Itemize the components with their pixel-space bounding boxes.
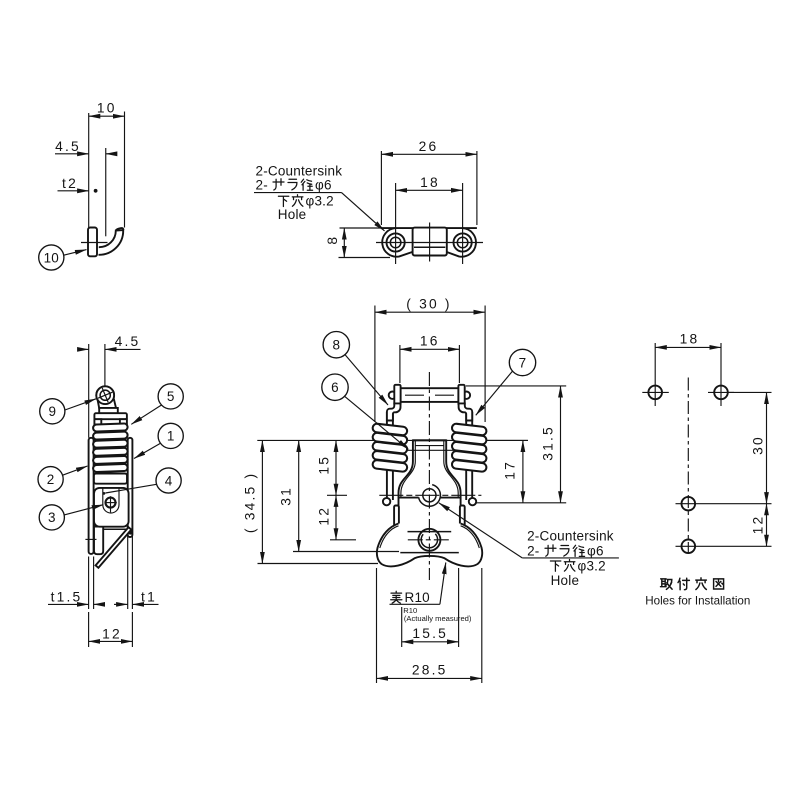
hole top-left [648, 386, 662, 400]
svg-text:φ3.2: φ3.2 [306, 194, 334, 209]
balloon 3 [39, 505, 64, 530]
spring top cap (part 5) [99, 408, 118, 413]
svg-text:9: 9 [48, 404, 56, 419]
extension line right [124, 112, 126, 228]
plate centre boss [413, 228, 447, 256]
spring seat block [94, 474, 127, 484]
spring wire end circles [389, 392, 396, 399]
dimension 26 [380, 151, 382, 225]
svg-text:2-Countersink: 2-Countersink [256, 164, 343, 179]
svg-text:2-: 2- [256, 178, 268, 193]
vertical center line mid [429, 223, 431, 262]
svg-text:18: 18 [680, 332, 700, 347]
balloon 1 [158, 423, 183, 448]
svg-text:16: 16 [420, 334, 440, 349]
dimension 12 (side view) [88, 612, 90, 647]
svg-text:φ3.2: φ3.2 [578, 559, 606, 574]
dimension 12 [766, 504, 768, 547]
caption: Holes for Installation (Japanese) [661, 579, 673, 590]
dimension 28.5 [376, 568, 378, 683]
body ledge line [399, 497, 461, 499]
svg-text:30: 30 [751, 435, 766, 455]
svg-text:6: 6 [331, 380, 339, 395]
svg-text:28.5: 28.5 [412, 663, 448, 678]
svg-text:7: 7 [519, 355, 527, 370]
svg-text:4.5: 4.5 [115, 334, 141, 349]
dimension 17 [487, 439, 528, 441]
top datum line y=440.4 [257, 439, 528, 441]
spring lower hook right [469, 498, 476, 505]
pivot bracket (part 3) [94, 488, 129, 527]
lower hole tick [85, 538, 96, 540]
top bar left tab [394, 385, 400, 405]
dimension (30) [374, 306, 376, 423]
vertical center line [428, 372, 430, 580]
balloon 7 [509, 349, 535, 375]
svg-text:t1.5: t1.5 [51, 590, 83, 605]
column inner band lines [415, 445, 444, 447]
svg-text:12: 12 [751, 515, 766, 535]
hook curved blade [99, 230, 124, 255]
svg-text:18: 18 [420, 175, 440, 190]
svg-text:15: 15 [316, 455, 331, 475]
right spring rod [465, 412, 467, 500]
svg-text:31.5: 31.5 [540, 425, 555, 461]
body bottom edge [400, 552, 459, 554]
hole center line of hook [81, 242, 108, 244]
dimension 15 [327, 494, 347, 496]
dimension 4.5 [88, 344, 90, 438]
dimension 15.5 [401, 607, 403, 647]
horizontal center line [376, 242, 483, 244]
dimension 10 [89, 115, 125, 117]
dimension 12 [330, 539, 356, 541]
S-bend bracket left (part 8) [387, 403, 401, 420]
t1 label [127, 536, 129, 609]
spring anchor ear right [460, 506, 465, 528]
svg-text:3: 3 [48, 510, 56, 525]
balloon 8 [323, 332, 349, 358]
kicked-out lever bottom (diagonal) [96, 527, 132, 568]
spring anchor ear left [394, 506, 399, 528]
svg-text:t2: t2 [62, 176, 78, 191]
svg-text:31: 31 [279, 486, 294, 506]
dimension (34.5) [258, 563, 379, 565]
vertical center line (dash-dot) [687, 378, 689, 553]
svg-text:4: 4 [165, 473, 173, 488]
dimension 16 [399, 345, 401, 383]
countersink note (front view) [439, 503, 522, 558]
svg-text:φ6: φ6 [587, 544, 604, 559]
hole bottom [682, 540, 696, 554]
S-bend bracket right (part 7) [459, 403, 473, 420]
svg-text:φ6: φ6 [315, 178, 332, 193]
svg-text:5: 5 [167, 389, 175, 404]
plate outline [382, 228, 476, 257]
dimension 31 [293, 551, 399, 553]
svg-text:2-Countersink: 2-Countersink [527, 528, 614, 543]
top bar [401, 388, 459, 402]
note R10 (actually measured) [391, 591, 402, 603]
svg-text:Hole: Hole [551, 573, 580, 588]
svg-text:12: 12 [102, 626, 122, 641]
svg-text:R10: R10 [405, 590, 430, 605]
dimension 18 [654, 343, 656, 406]
balloon 9 [40, 399, 65, 424]
balloon 5 [158, 384, 183, 409]
spring lower hook left [383, 498, 390, 505]
svg-text:Hole: Hole [278, 207, 307, 222]
svg-text:15.5: 15.5 [412, 626, 448, 641]
svg-text:26: 26 [419, 139, 439, 154]
svg-text:( 34.5 ): ( 34.5 ) [243, 472, 258, 533]
lower foot strip [94, 527, 103, 555]
countersink hole right [454, 233, 472, 251]
countersink hole 2 [418, 529, 440, 551]
balloon 2 [38, 467, 63, 492]
svg-text:( 30 ): ( 30 ) [406, 296, 451, 311]
left spring coils [372, 423, 407, 472]
dimension 18 [395, 183, 397, 264]
svg-text:8: 8 [325, 235, 340, 245]
balloon 4 [156, 468, 181, 493]
svg-text:2: 2 [47, 472, 55, 487]
centre body column [399, 440, 461, 551]
svg-text:10: 10 [44, 250, 59, 265]
svg-text:10: 10 [97, 101, 117, 116]
dimension 31.5 [466, 385, 566, 387]
left spring rod [386, 412, 388, 500]
side spring coils [93, 423, 128, 472]
svg-text:(Actually measured): (Actually measured) [404, 614, 472, 623]
svg-text:Holes for Installation: Holes for Installation [645, 594, 750, 607]
dimension 4.5 [55, 153, 89, 155]
wings base flange [377, 524, 482, 567]
svg-text:t1: t1 [141, 590, 157, 605]
countersink hole 1 [418, 484, 440, 506]
svg-text:8: 8 [332, 338, 340, 353]
dimension 30 [766, 392, 768, 503]
thickness t2 label [58, 190, 89, 192]
t1.5 label [88, 557, 90, 610]
right spring coils [452, 423, 487, 472]
balloon 6 [322, 374, 348, 400]
balloon 10 [39, 245, 64, 270]
countersink hole left [387, 233, 405, 251]
eyelet head (part 9) [96, 386, 114, 404]
frame left wall (part 2) [89, 438, 94, 554]
svg-text:2-: 2- [527, 544, 539, 559]
top bar right tab [458, 385, 464, 405]
dimension 8 (plate height) [340, 227, 383, 229]
svg-text:1: 1 [167, 429, 175, 444]
extension line left [88, 113, 90, 228]
svg-text:17: 17 [502, 460, 517, 480]
svg-text:12: 12 [316, 506, 331, 526]
frame right wall (part 1) [128, 438, 133, 537]
hook mounting tab [88, 228, 97, 257]
svg-text:4.5: 4.5 [55, 139, 81, 154]
hole top-right [714, 386, 728, 400]
hole lower-mid [682, 497, 696, 511]
